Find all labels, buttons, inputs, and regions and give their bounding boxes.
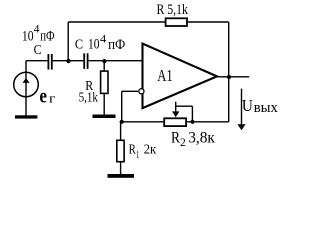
svg-text:2к: 2к xyxy=(144,143,157,158)
svg-text:г: г xyxy=(49,91,55,106)
capacitor C1 plates xyxy=(48,54,51,70)
wire right vertical feedback xyxy=(228,22,230,122)
wire inverting input vertical xyxy=(121,91,123,122)
node output junction xyxy=(227,75,231,79)
svg-text:1: 1 xyxy=(136,149,139,161)
svg-text:R 5,1k: R 5,1k xyxy=(157,2,189,18)
source eg circle xyxy=(14,72,39,97)
svg-text:3,8к: 3,8к xyxy=(188,130,215,147)
svg-text:U: U xyxy=(242,96,253,115)
wire R2 right to output vertical xyxy=(186,121,229,123)
node R tap junction xyxy=(102,59,106,63)
wire R box to ground xyxy=(103,93,105,114)
wire R2 wiper down to output wire xyxy=(191,106,193,122)
svg-text:вых: вых xyxy=(254,100,279,116)
wire main input segment source to C1 xyxy=(26,60,48,62)
svg-text:4: 4 xyxy=(34,22,40,36)
wire Uout arrow shaft xyxy=(241,89,243,125)
source eg arrowhead xyxy=(23,78,30,83)
svg-text:пФ: пФ xyxy=(40,29,54,45)
svg-text:10: 10 xyxy=(88,37,100,53)
R2 wiper arrowhead xyxy=(172,111,179,117)
wire feedback left vertical xyxy=(67,22,69,61)
resistor R 5,1k feedback box xyxy=(166,18,187,26)
wire C2 to op-amp noninverting input xyxy=(89,60,142,62)
op-amp inverting bubble xyxy=(139,89,144,94)
capacitor C2 plates xyxy=(84,53,87,69)
node wiper junction xyxy=(190,120,194,124)
wire R1 bottom to ground xyxy=(120,162,122,174)
wire C1 to C2 xyxy=(53,60,84,62)
svg-text:пФ: пФ xyxy=(108,37,125,53)
resistor R 5,1k vertical box xyxy=(101,71,108,93)
wire source vertical xyxy=(25,61,27,116)
wire R tap from node to box xyxy=(103,61,105,71)
svg-text:C: C xyxy=(34,43,42,58)
svg-text:10: 10 xyxy=(22,28,34,44)
wire top feedback right xyxy=(187,21,229,23)
node inverting junction xyxy=(120,120,124,124)
svg-text:A1: A1 xyxy=(157,66,173,85)
Uout arrowhead xyxy=(237,124,245,130)
wire node to R1 top xyxy=(120,122,122,141)
wire node to R2 left xyxy=(122,121,165,123)
svg-text:4: 4 xyxy=(100,31,106,45)
svg-text:2: 2 xyxy=(180,135,186,149)
wire op-amp output xyxy=(217,76,250,78)
ground source xyxy=(15,115,37,118)
node C1-C2 junction xyxy=(66,59,70,63)
svg-text:R: R xyxy=(171,129,180,146)
svg-text:e: e xyxy=(39,84,47,108)
resistor R1 box xyxy=(117,140,124,161)
wire inverting input horizontal xyxy=(122,90,138,92)
wire top feedback left xyxy=(68,21,165,23)
ground R vertical xyxy=(93,115,116,119)
resistor R2 box xyxy=(164,118,186,126)
ground R1 xyxy=(108,174,135,178)
svg-text:5,1k: 5,1k xyxy=(79,91,98,106)
op-amp A1 triangle xyxy=(143,44,218,109)
wire R2 wiper horizontal xyxy=(176,105,193,107)
wire R2 wiper vertical stub xyxy=(175,102,177,112)
svg-text:C: C xyxy=(75,38,83,53)
